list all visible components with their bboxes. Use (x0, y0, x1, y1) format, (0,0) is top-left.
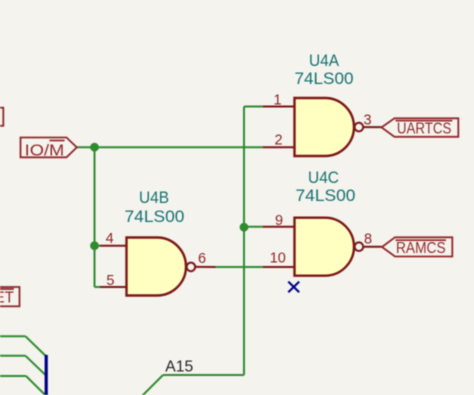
wire IO/M to U4A pin2 (horizontal) (77, 146, 264, 148)
wire bus entry 3 horizontal (0, 375, 26, 377)
pin 10 (U4C) (263, 266, 295, 268)
svg-text:RAMCS: RAMCS (396, 240, 446, 257)
global label RAMCS (active low) (382, 237, 452, 257)
svg-text:IO/M: IO/M (25, 142, 65, 159)
svg-text:3: 3 (363, 112, 371, 128)
wire U4B pin6 to U4C pin10 (216, 266, 264, 268)
wire bus entry 2 horizontal (0, 355, 26, 357)
clipped global label ...ET at left edge (active low) (0, 287, 20, 307)
pin 1 (U4A) (263, 106, 295, 108)
svg-text:6: 6 (198, 251, 206, 267)
junction at U4B pin4 (90, 241, 99, 250)
svg-text:74LS00: 74LS00 (296, 186, 356, 205)
svg-text:U4B: U4B (139, 188, 169, 207)
U4A output bubble (355, 123, 364, 132)
wire stub to U4B pin4 (95, 245, 101, 247)
svg-text:U4A: U4A (309, 51, 340, 70)
svg-text:U4C: U4C (308, 168, 339, 187)
svg-text:ET: ET (0, 290, 14, 307)
svg-text:10: 10 (270, 251, 286, 267)
pin 4 (U4B) (100, 245, 127, 247)
U4C output bubble (355, 242, 364, 251)
svg-text:74LS00: 74LS00 (295, 69, 354, 88)
svg-text:UARTCS: UARTCS (397, 121, 452, 138)
wire A15 horizontal (163, 374, 244, 376)
wire A15 diagonal to lower left (142, 375, 163, 395)
global label IO/M (active-low M) (21, 138, 77, 160)
svg-text:9: 9 (275, 213, 283, 229)
svg-text:74LS00: 74LS00 (125, 207, 185, 226)
U4B output bubble (187, 263, 196, 272)
wire stub to U4C pin9 (244, 226, 263, 228)
wire bus entry 1 horizontal (0, 335, 26, 337)
pin 3 (U4A output) (363, 126, 381, 128)
bus (address bus, vertical) (45, 355, 48, 395)
svg-text:A15: A15 (165, 359, 193, 376)
bus entry 2 diagonal (26, 356, 46, 376)
junction at IO/M split (90, 143, 99, 152)
svg-text:2: 2 (274, 133, 282, 149)
NAND gate U4B body (127, 238, 187, 296)
wire stub to U4B pin5 (95, 286, 101, 288)
pin 5 (U4B) (100, 286, 127, 288)
pin 9 (U4C) (263, 226, 295, 228)
pin 8 (U4C output) (363, 246, 382, 248)
wire vertical from IO/M junction down to pin5 row (94, 147, 96, 287)
pin 6 (U4B output) (195, 266, 215, 268)
wire U4A pin1 horizontal (244, 106, 263, 108)
wire vertical A15 riser (pin1 down to A15 row) (243, 107, 245, 376)
global label UARTCS (active low) (382, 118, 459, 137)
bus entry 1 diagonal (26, 336, 46, 356)
svg-text:8: 8 (364, 232, 372, 248)
clipped global label box at left edge (upper) (0, 108, 3, 126)
NAND gate U4C body (295, 218, 355, 276)
NAND gate U4A body (295, 98, 354, 156)
bus entry 3 diagonal (26, 376, 46, 395)
pin 2 (U4A) (263, 146, 295, 148)
no-connect X marker below U4C (288, 282, 299, 293)
junction at U4C pin9 (240, 223, 249, 232)
svg-text:1: 1 (273, 93, 281, 109)
svg-text:4: 4 (106, 231, 114, 247)
svg-text:5: 5 (106, 273, 114, 289)
